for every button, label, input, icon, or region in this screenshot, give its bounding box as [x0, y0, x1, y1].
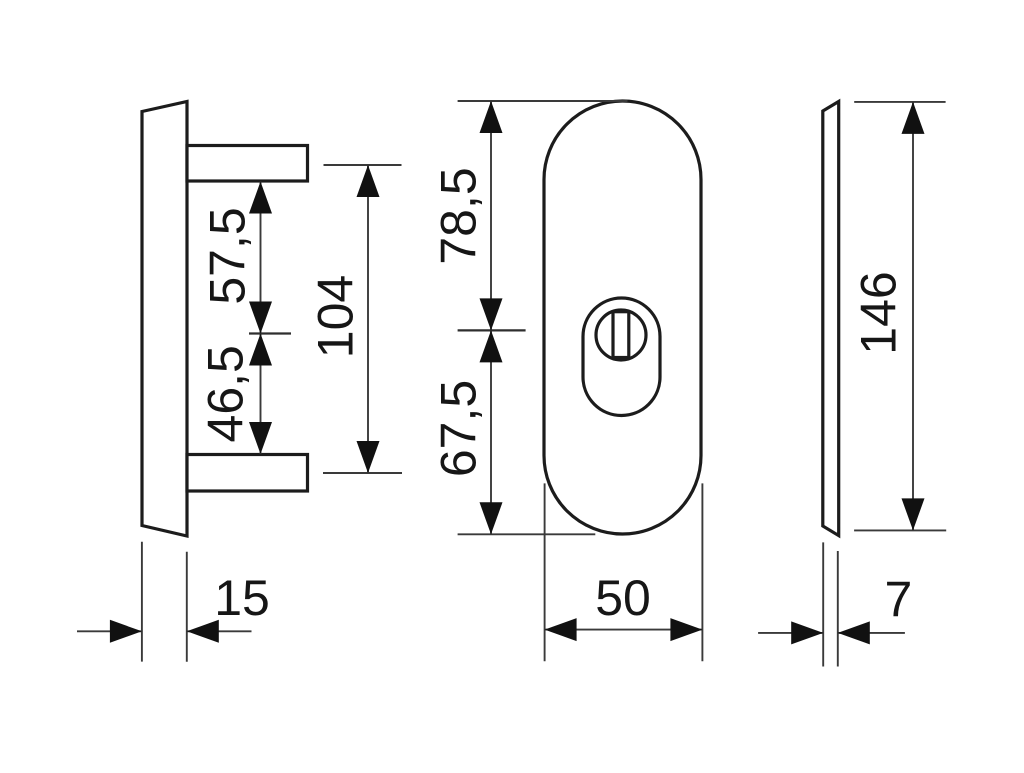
svg-text:50: 50	[595, 570, 651, 626]
ext line top of capsule	[458, 100, 628, 102]
right view: thin strip profile	[823, 102, 839, 536]
left view: top mounting tab	[187, 146, 308, 182]
arrow down 146	[902, 498, 925, 530]
ext line bottom of capsule	[458, 533, 596, 535]
middle view: capsule face plate	[544, 101, 701, 534]
arrow up from mid tick (middle)	[480, 330, 503, 362]
dim 15 ext line left	[141, 542, 143, 662]
svg-text:104: 104	[308, 275, 364, 358]
ext line 146 bottom	[854, 529, 946, 531]
middle view: cylinder circle	[596, 310, 646, 360]
arrow left 50	[545, 618, 577, 641]
middle view: cylinder protection oval	[583, 298, 660, 416]
mid tick middle view	[458, 329, 526, 331]
arrow down 104	[357, 441, 380, 473]
arrow up at top tab	[249, 182, 272, 214]
dim 7 ext line right	[837, 551, 839, 667]
dim 7 left tail and arrow	[758, 632, 823, 634]
left view: plate side profile	[142, 102, 187, 537]
svg-text:67,5: 67,5	[431, 380, 487, 477]
dim line 146	[912, 102, 914, 531]
arrow up from mid tick	[249, 334, 272, 366]
arrow up 146	[902, 102, 925, 134]
dim 15 right tail and arrow	[187, 630, 252, 632]
svg-text:15: 15	[214, 570, 270, 626]
dim 50 ext line left	[544, 483, 546, 661]
dim 7 ext line left	[822, 542, 824, 666]
arrow down at bottom tab	[249, 422, 272, 454]
dim 15 ext line right	[186, 552, 188, 662]
ext line 104 top	[324, 164, 402, 166]
svg-text:7: 7	[884, 572, 912, 628]
middle view: key slot	[613, 312, 629, 358]
arrow up 104	[357, 165, 380, 197]
arrow down to mid tick (middle)	[480, 298, 503, 330]
dim 15 left tail and arrow	[77, 630, 142, 632]
ext line 104 bottom	[323, 472, 402, 474]
dim 7 right tail and arrow	[838, 632, 905, 634]
ext line 146 top	[854, 101, 945, 103]
dim 50 line	[545, 629, 703, 631]
dim line 78,5 / 67,5	[490, 101, 492, 534]
arrow up top capsule	[480, 101, 503, 133]
left view: bottom mounting tab	[187, 455, 308, 492]
dim 50 ext line right	[701, 483, 703, 661]
svg-text:57,5: 57,5	[200, 207, 256, 304]
svg-text:146: 146	[851, 271, 907, 354]
arrow right 50	[670, 618, 702, 641]
svg-text:46,5: 46,5	[198, 345, 254, 442]
dim line 104	[367, 165, 369, 473]
svg-text:78,5: 78,5	[431, 167, 487, 264]
arrow down to mid tick	[249, 302, 272, 334]
arrow down bottom capsule	[480, 502, 503, 534]
dim line 57,5 / 46,5	[260, 182, 262, 455]
mid tick left view	[249, 332, 291, 334]
